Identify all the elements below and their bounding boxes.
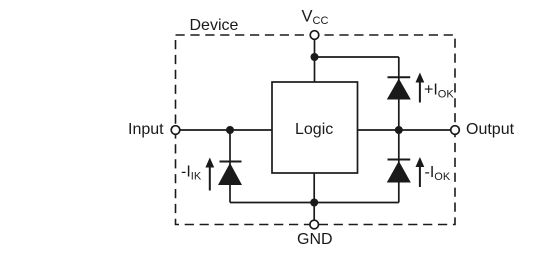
svg-text:Device: Device bbox=[190, 17, 239, 34]
svg-text:Logic: Logic bbox=[295, 121, 333, 138]
svg-text:GND: GND bbox=[297, 231, 333, 248]
svg-text:Output: Output bbox=[466, 121, 515, 138]
svg-text:Input: Input bbox=[128, 121, 164, 138]
